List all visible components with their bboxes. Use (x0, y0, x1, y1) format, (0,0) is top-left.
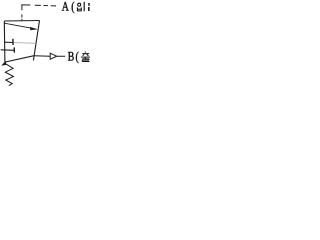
pilot line vertical (dashed, node above valve) (21, 5, 23, 11)
closed port T-bar (upper) (12, 39, 14, 45)
drain arrowhead at bottom-left corner (1, 61, 6, 66)
hangul glyph 출 (custom drawn, clipped at edge) (81, 52, 90, 62)
flow path arrow (diagonal) (4, 23, 32, 28)
wire from triangle to label B (57, 55, 66, 57)
valve body V1: left edge (3, 21, 6, 62)
flow path arrowhead (points right into edge) (30, 27, 38, 30)
closed port T-bar (lower) (13, 47, 15, 52)
faint internal line to right edge (13, 42, 36, 45)
pilot line horizontal (dashed, to port A) (21, 4, 30, 6)
valve body V1: right edge (overshoots bottom corner) (33, 21, 39, 61)
closed port line (lower T, stub through left edge) (1, 49, 15, 52)
spring S1 (zigzag below valve) (5, 64, 13, 86)
valve body V1: top edge (4, 20, 39, 23)
valve body V1: bottom edge (slight sag) (5, 56, 34, 62)
svg-text:A(: A( (62, 0, 77, 13)
check triangle at port B (50, 53, 57, 59)
closed port line (upper T) (4, 41, 13, 43)
svg-text:B(: B( (68, 50, 80, 63)
partial next glyph at image edge (A label) (88, 3, 90, 11)
wire to port B (34, 55, 50, 57)
hangul glyph 입 (custom drawn) (77, 2, 84, 11)
